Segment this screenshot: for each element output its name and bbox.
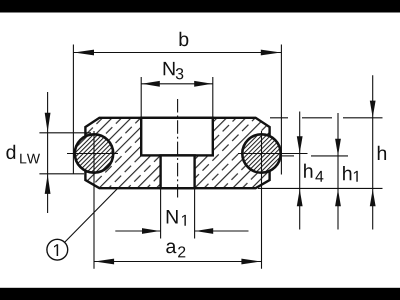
leader line for item 1 bbox=[64, 189, 117, 243]
dimension d_LW extension line top bbox=[39, 132, 91, 134]
dimension N1 line left segment bbox=[115, 230, 160, 232]
crosshair right ball vertical and a2 extension right bbox=[261, 131, 263, 269]
dimension N3 extension line right bbox=[212, 77, 214, 117]
dimension h4 arrow up bbox=[297, 189, 303, 206]
label h1 bbox=[343, 166, 351, 180]
balloon label 1 bbox=[54, 244, 58, 256]
vertical centerline dash-dot bbox=[177, 99, 179, 198]
label b bbox=[180, 32, 189, 46]
slot N1 (narrow bottom slot) bbox=[161, 155, 195, 188]
dimension N1 extension line left bbox=[160, 190, 162, 239]
dimension d_LW arrow down bbox=[45, 113, 51, 133]
dimension h arrow up bbox=[370, 189, 376, 206]
dimension h1 vertical line bbox=[337, 113, 339, 230]
dimension b arrow left bbox=[74, 50, 94, 56]
ball right bbox=[242, 134, 280, 172]
slot N3 (wide top slot) bbox=[141, 118, 213, 156]
h1 reference dashed line slot bottom extended bbox=[282, 155, 294, 157]
bottom reference line bbox=[258, 187, 383, 189]
dimension b extension line right bbox=[280, 45, 282, 175]
dimension h vertical line bbox=[372, 75, 374, 229]
dimension h4 arrow down bbox=[297, 136, 303, 153]
dimension N3 extension line left bbox=[140, 77, 142, 117]
ball left bbox=[75, 134, 113, 172]
dimension h1 arrow down bbox=[335, 139, 341, 156]
label d_LW bbox=[6, 145, 15, 159]
dimension b extension line left bbox=[72, 45, 74, 174]
label h4 bbox=[304, 164, 312, 178]
crosshair left ball vertical and a2 extension left bbox=[93, 131, 95, 269]
crosshair right ball horizontal and h4 reference bbox=[238, 153, 308, 155]
label N1 bbox=[167, 210, 178, 223]
dimension N1 arrow pointing right bbox=[142, 228, 160, 234]
dimension N3 line bbox=[141, 83, 213, 85]
label a2 bbox=[166, 243, 176, 254]
dimension N3 arrow left bbox=[142, 81, 160, 87]
dimension h4 vertical line bbox=[299, 112, 301, 230]
dimension a2 arrow right bbox=[241, 259, 261, 265]
dimension h arrow down bbox=[370, 101, 376, 118]
dimension a2 line bbox=[94, 261, 262, 263]
letterbox bar top bbox=[0, 0, 400, 13]
dimension N1 arrow pointing left bbox=[195, 228, 213, 234]
dimension N1 line right segment bbox=[195, 230, 249, 232]
dimension d_LW vertical line bbox=[47, 92, 49, 213]
dimension N3 arrow right bbox=[194, 81, 212, 87]
dimension a2 arrow left bbox=[95, 259, 115, 265]
item balloon circle bbox=[47, 239, 68, 260]
top reference dashed line for h bbox=[270, 117, 288, 119]
label N3 bbox=[164, 62, 175, 75]
body (hatched carriage cross-section) bbox=[85, 118, 269, 188]
dimension b line bbox=[73, 52, 281, 54]
dimension h1 arrow up bbox=[335, 189, 341, 206]
dimension b arrow right bbox=[261, 50, 281, 56]
dimension d_LW extension line bottom bbox=[39, 173, 84, 175]
dimension N1 extension line right bbox=[194, 190, 196, 239]
label h bbox=[378, 146, 386, 160]
dimension d_LW arrow up bbox=[45, 174, 51, 194]
letterbox bar bottom bbox=[0, 288, 400, 300]
crosshair left ball horizontal bbox=[67, 153, 118, 155]
